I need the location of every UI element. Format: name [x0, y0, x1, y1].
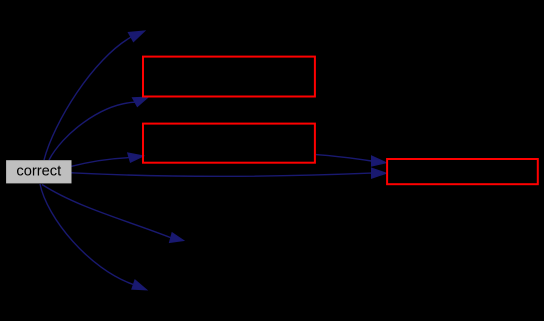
red box 3: [387, 159, 538, 184]
edge correct->top node: [44, 37, 131, 160]
edge correct->box1: [49, 102, 135, 160]
edge box2->box3: [316, 155, 372, 161]
node correct (grey): [6, 160, 71, 183]
edge correct->bottom-middle node: [42, 185, 171, 238]
arrowhead box3 lower: [371, 168, 387, 179]
edge correct->bottom-low node: [40, 184, 133, 285]
arrowhead box3 upper: [371, 156, 386, 167]
svg-text:correct: correct: [16, 164, 61, 180]
red box 1: [143, 57, 315, 97]
arrowhead bottom-low: [132, 280, 147, 290]
edge correct->box2: [72, 158, 129, 167]
arrowhead box2: [128, 153, 145, 163]
arrowhead top node: [128, 31, 145, 42]
arrowhead bottom-middle: [169, 233, 184, 243]
edge correct->box3 (long horizontal): [72, 173, 372, 177]
red box 2: [143, 124, 315, 163]
arrowhead box1: [132, 97, 148, 107]
